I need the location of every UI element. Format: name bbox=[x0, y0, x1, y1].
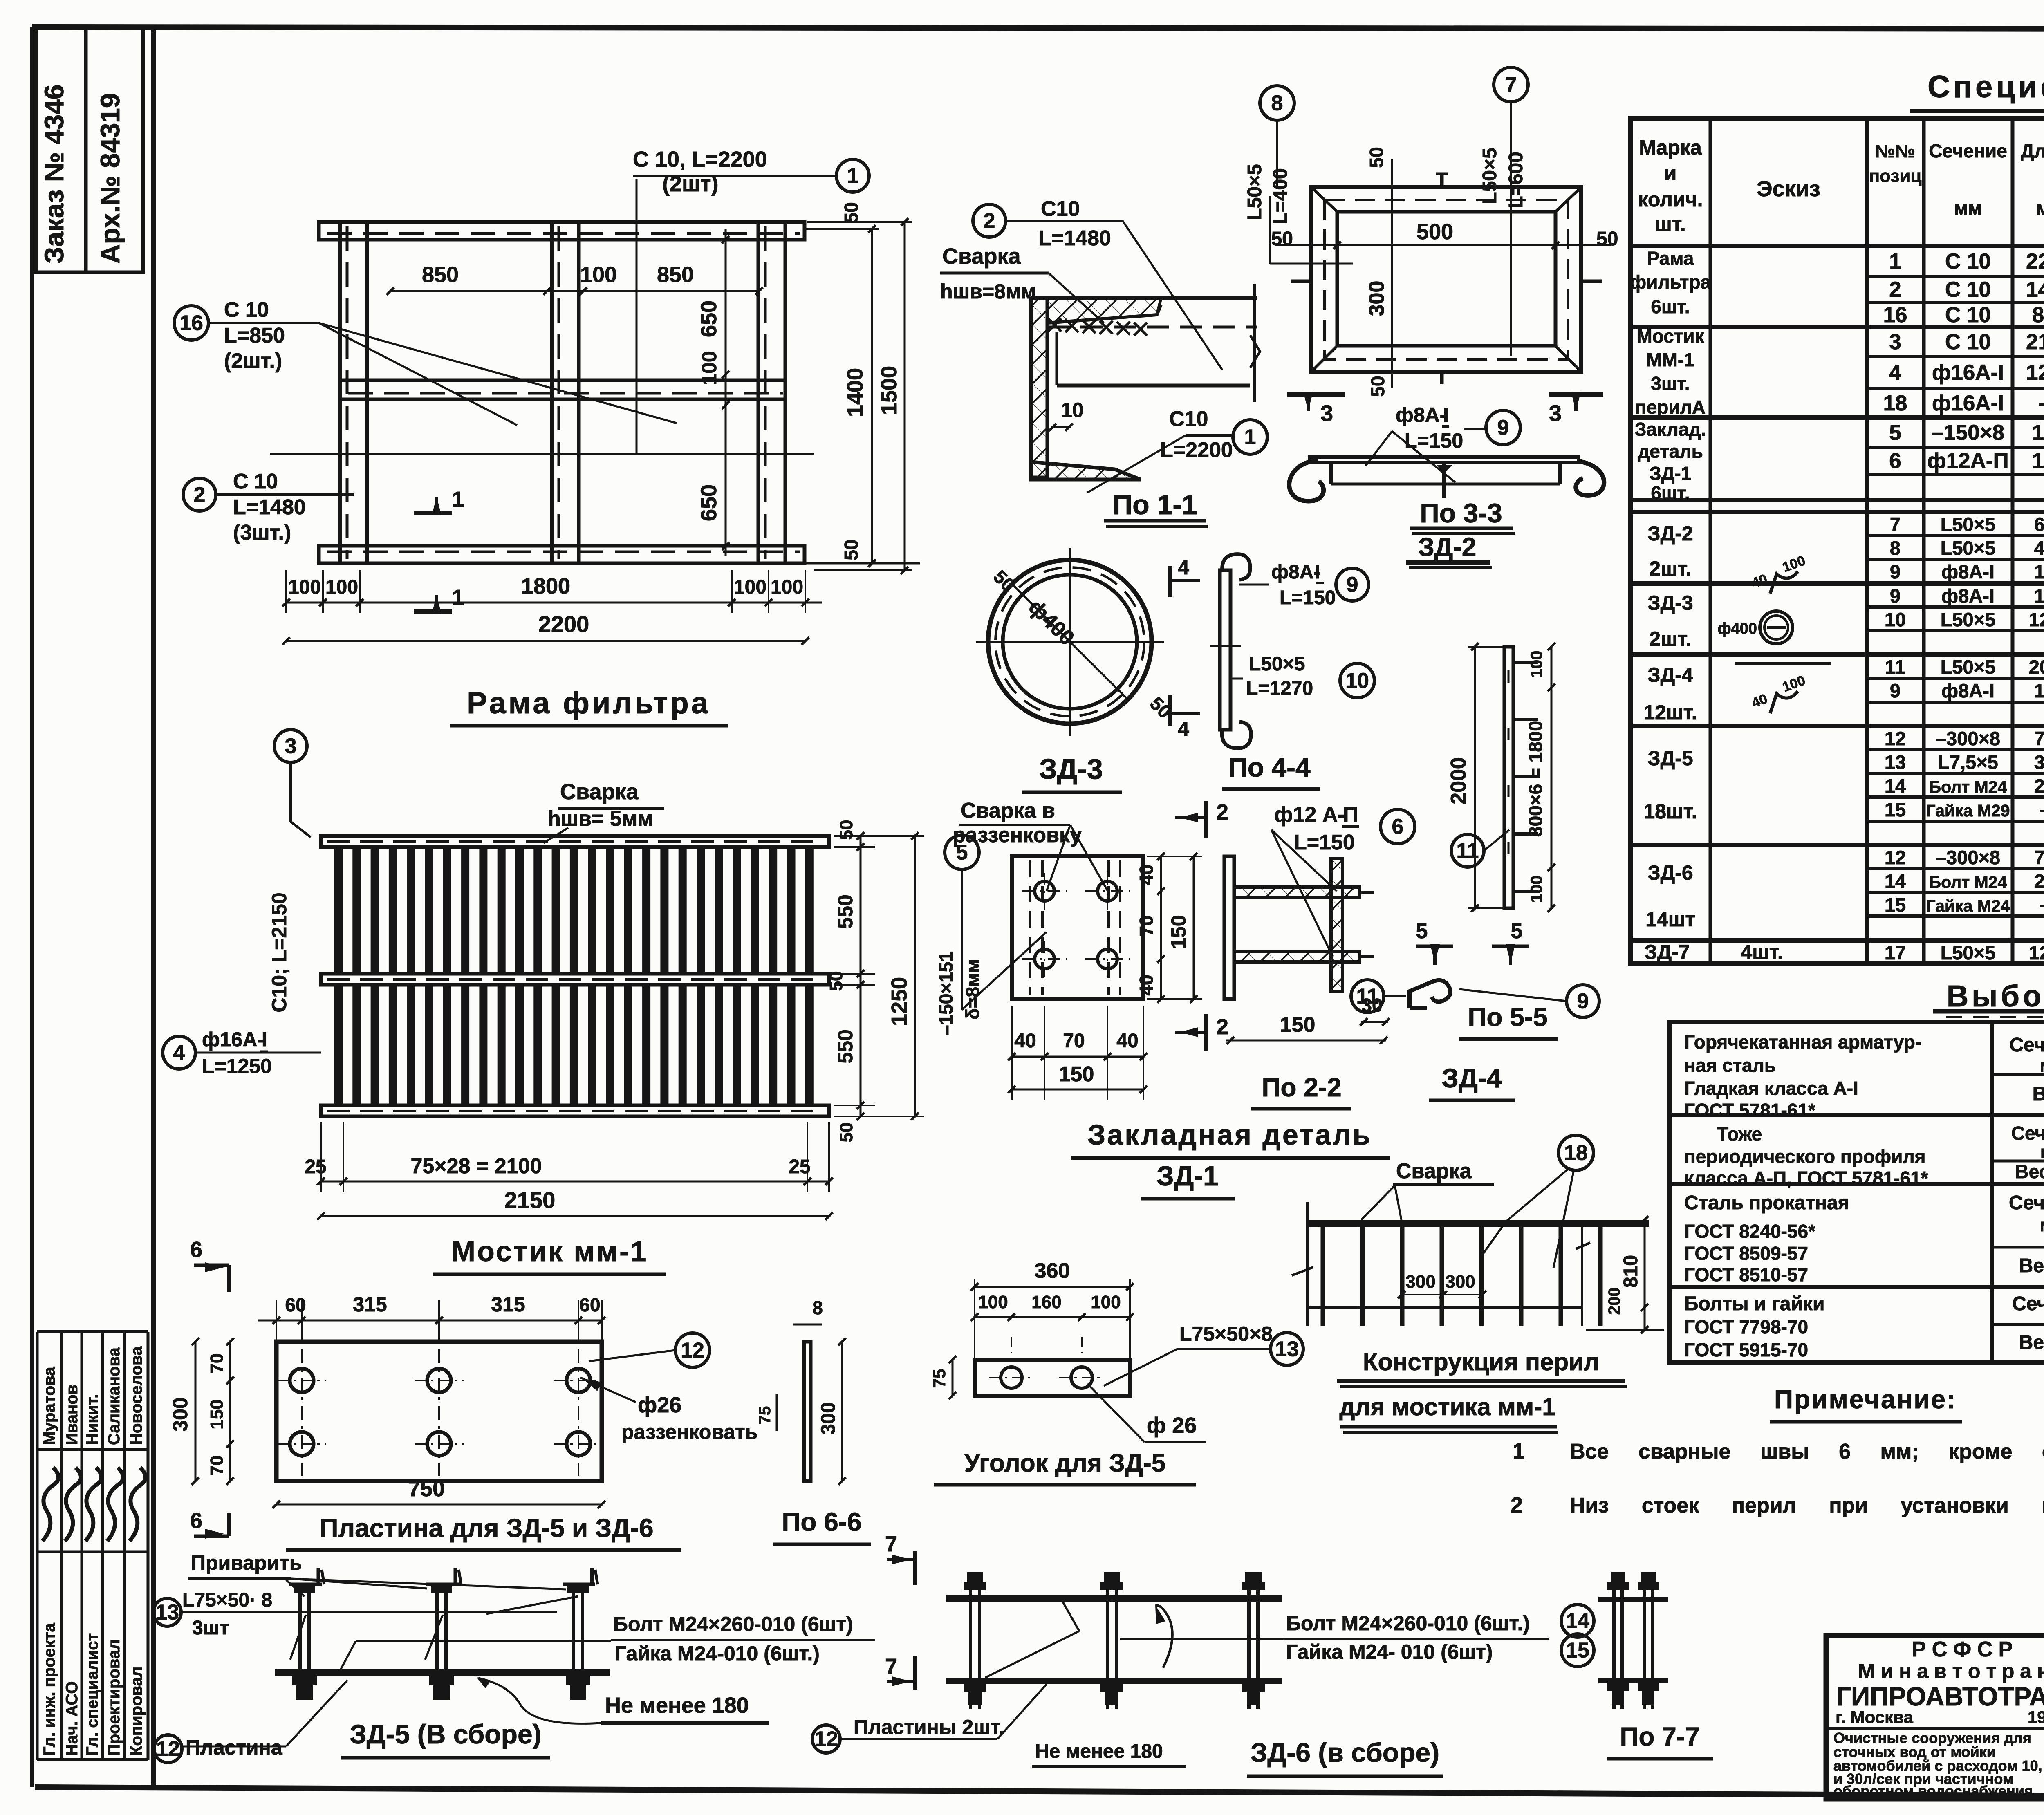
svg-text:100: 100 bbox=[734, 576, 766, 598]
svg-text:Сечение;: Сечение; bbox=[2009, 1192, 2044, 1214]
Vyborka table: horizontals bbox=[1992, 1073, 2044, 1076]
Po 4-4: section marks 4 bbox=[1168, 566, 1172, 597]
Po 2-2: flange plate bbox=[1224, 856, 1234, 999]
svg-text:С10: С10 bbox=[1041, 197, 1080, 221]
svg-text:150: 150 bbox=[2032, 421, 2044, 445]
svg-text:для мостика мм-1: для мостика мм-1 bbox=[1339, 1393, 1555, 1421]
svg-text:ГОСТ 7798-70: ГОСТ 7798-70 bbox=[1684, 1316, 1808, 1338]
svg-text:10: 10 bbox=[1345, 669, 1369, 693]
svg-text:7: 7 bbox=[1890, 513, 1901, 535]
archive stamp strip: Арх. № 84319 bbox=[86, 27, 143, 272]
Rama filtra: leader line from pos1 down bbox=[636, 179, 638, 454]
ZD-2: right pin bbox=[1580, 280, 1602, 283]
svg-text:оборотном водоснабжения: оборотном водоснабжения bbox=[1833, 1783, 2033, 1799]
svg-text:L50×5: L50×5 bbox=[1941, 513, 1996, 535]
svg-text:Вес, кг.: Вес, кг. bbox=[2019, 1255, 2044, 1277]
svg-text:4: 4 bbox=[1178, 556, 1189, 579]
svg-text:δ=8мм: δ=8мм bbox=[962, 959, 983, 1020]
svg-text:16: 16 bbox=[179, 311, 203, 335]
svg-text:Горячекатанная арматур-: Горячекатанная арматур- bbox=[1684, 1031, 1921, 1053]
svg-text:12: 12 bbox=[1885, 728, 1906, 749]
svg-text:6шт.: 6шт. bbox=[1651, 482, 1690, 504]
Po 2-2: top anchor hatched bbox=[1234, 887, 1359, 898]
ZD-1: callout 5 -150x151 bbox=[945, 835, 979, 869]
svg-text:Сварка: Сварка bbox=[942, 244, 1021, 269]
svg-text:Вес,: Вес, bbox=[2033, 1083, 2044, 1105]
Mostik MM-1: middle band bbox=[321, 974, 829, 985]
svg-text:750: 750 bbox=[2034, 728, 2044, 749]
svg-text:Примечание:: Примечание: bbox=[1774, 1385, 1957, 1414]
svg-text:1250: 1250 bbox=[2026, 361, 2044, 385]
svg-text:Рама: Рама bbox=[1647, 248, 1694, 269]
svg-text:14: 14 bbox=[1885, 775, 1906, 797]
svg-text:300: 300 bbox=[818, 1402, 839, 1435]
Title block: outer box bbox=[1826, 1636, 2044, 1799]
svg-text:40: 40 bbox=[1116, 1030, 1138, 1052]
svg-text:6шт.: 6шт. bbox=[1651, 296, 1690, 317]
ZD-2: left pin bbox=[1291, 280, 1313, 283]
svg-text:—: — bbox=[2041, 799, 2044, 820]
svg-text:класса А-П, ГОСТ 5781-61*: класса А-П, ГОСТ 5781-61* bbox=[1684, 1167, 1928, 1189]
ZD-2: section marks 3-3 bbox=[1287, 392, 1345, 397]
Spec table: eskiz sketch ring for ZD-3 bbox=[1760, 611, 1793, 644]
Po 1-1: right break line bbox=[1253, 284, 1256, 402]
svg-text:hшв= 5мм: hшв= 5мм bbox=[548, 807, 653, 831]
svg-text:25: 25 bbox=[789, 1156, 810, 1178]
svg-text:С 10: С 10 bbox=[233, 470, 278, 493]
svg-text:1250: 1250 bbox=[887, 977, 912, 1026]
svg-text:L=850: L=850 bbox=[224, 324, 285, 347]
svg-text:650: 650 bbox=[697, 300, 721, 337]
Po 6-6: thin plate bbox=[804, 1342, 811, 1481]
svg-text:100: 100 bbox=[325, 576, 358, 598]
svg-text:11: 11 bbox=[1885, 656, 1905, 678]
ZD-2 side view middle pin bbox=[1442, 463, 1446, 498]
svg-text:70: 70 bbox=[207, 1456, 227, 1476]
svg-text:ГОСТ 8510-57: ГОСТ 8510-57 bbox=[1684, 1264, 1808, 1285]
ZD-5 asm: callout 13 L75x50.8 3sht bbox=[153, 1598, 181, 1626]
svg-text:9: 9 bbox=[1497, 416, 1509, 440]
Po 5-5: callout 9 bbox=[1567, 985, 1599, 1017]
section marks 5-5 above bbox=[1416, 945, 1453, 948]
svg-text:По 5-5: По 5-5 bbox=[1468, 1002, 1547, 1032]
svg-text:2: 2 bbox=[984, 209, 995, 233]
svg-text:(3шт.): (3шт.) bbox=[233, 521, 291, 544]
ZD-1: bottom dim chain 40 70 40 / 150 bbox=[1012, 1056, 1143, 1058]
svg-text:–300×8: –300×8 bbox=[1936, 728, 2000, 749]
svg-text:По 4-4: По 4-4 bbox=[1228, 752, 1311, 782]
svg-text:5: 5 bbox=[1889, 421, 1901, 445]
svg-text:150: 150 bbox=[2034, 561, 2044, 583]
svg-text:850: 850 bbox=[2032, 303, 2044, 327]
ZD-6 asm: top bar bbox=[946, 1595, 1282, 1602]
svg-text:Болт М24×260-010 (6шт.): Болт М24×260-010 (6шт.) bbox=[1286, 1612, 1530, 1635]
svg-text:9: 9 bbox=[1347, 573, 1358, 597]
svg-text:hшв=8мм: hшв=8мм bbox=[940, 280, 1036, 303]
svg-text:Закладная деталь: Закладная деталь bbox=[1087, 1119, 1372, 1151]
svg-text:6: 6 bbox=[1889, 449, 1901, 473]
ZD-6 asm: callout 12 plastiny 2sht bbox=[812, 1725, 840, 1753]
Rama filtra: middle column C10 bbox=[552, 222, 579, 563]
svg-text:L50×5: L50×5 bbox=[1941, 942, 1996, 964]
svg-text:70: 70 bbox=[207, 1353, 227, 1374]
Rama filtra: mid horizontal axis line bbox=[270, 453, 814, 455]
svg-text:Не менее 180: Не менее 180 bbox=[1035, 1741, 1163, 1762]
Plastina: bottom dim 750 bbox=[276, 1504, 602, 1506]
ZD-5 asm: angles and bolts bbox=[289, 1583, 322, 1586]
svg-text:ГОСТ 5915-70: ГОСТ 5915-70 bbox=[1684, 1339, 1808, 1360]
svg-text:№№: №№ bbox=[1875, 141, 1915, 161]
svg-text:1800: 1800 bbox=[521, 574, 570, 598]
svg-text:100: 100 bbox=[698, 351, 721, 385]
svg-text:3шт: 3шт bbox=[192, 1617, 229, 1639]
svg-text:ЗД-4: ЗД-4 bbox=[1441, 1063, 1502, 1093]
svg-text:Сечение,: Сечение, bbox=[2011, 1123, 2044, 1144]
svg-text:2: 2 bbox=[1889, 278, 1901, 302]
svg-text:4: 4 bbox=[1178, 717, 1189, 740]
svg-text:ЗД-2: ЗД-2 bbox=[1647, 522, 1693, 545]
ZD-3: outer circle bbox=[988, 560, 1152, 724]
svg-text:100: 100 bbox=[1091, 1292, 1121, 1312]
svg-text:60: 60 bbox=[285, 1294, 306, 1315]
svg-text:1: 1 bbox=[1513, 1439, 1525, 1463]
svg-text:40: 40 bbox=[1136, 864, 1157, 885]
svg-text:360: 360 bbox=[1035, 1259, 1070, 1283]
svg-text:Рама фильтра: Рама фильтра bbox=[467, 686, 710, 720]
svg-text:По 2-2: По 2-2 bbox=[1262, 1073, 1341, 1102]
svg-text:100: 100 bbox=[771, 576, 803, 598]
svg-text:10: 10 bbox=[1885, 609, 1906, 630]
Perila: posts bbox=[1321, 1227, 1325, 1326]
Rama filtra: callout 2 C10 L=1480 bbox=[183, 478, 216, 511]
svg-text:ММ-1: ММ-1 bbox=[1646, 349, 1694, 370]
svg-text:I: I bbox=[262, 1028, 267, 1051]
svg-text:С10; L=2150: С10; L=2150 bbox=[268, 892, 291, 1012]
svg-text:600: 600 bbox=[2034, 513, 2044, 535]
Mostik MM-1: callout 4 f16A-I L=1250 bbox=[163, 1036, 195, 1069]
svg-text:2: 2 bbox=[194, 483, 206, 507]
Plastina: section mark 6 lower bbox=[194, 1535, 229, 1538]
svg-text:ф12 А-: ф12 А- bbox=[1274, 803, 1345, 827]
svg-text:18: 18 bbox=[1564, 1141, 1588, 1165]
Rama filtra: section mark 1 upper bbox=[414, 511, 452, 515]
svg-text:Приварить: Приварить bbox=[191, 1551, 302, 1574]
svg-text:18: 18 bbox=[1883, 391, 1907, 415]
svg-text:150: 150 bbox=[2032, 449, 2044, 473]
svg-text:перилА: перилА bbox=[1635, 397, 1706, 418]
svg-text:300: 300 bbox=[1405, 1272, 1435, 1292]
svg-text:12: 12 bbox=[1885, 847, 1906, 868]
Po 4-4: bottom hook bbox=[1222, 722, 1251, 748]
Po 6-6: left dim 75 bbox=[776, 1394, 778, 1431]
svg-text:Вес, кг.: Вес, кг. bbox=[2019, 1332, 2044, 1353]
svg-text:12: 12 bbox=[156, 1737, 180, 1761]
Po 1-1: bottom flange hatched bbox=[1031, 462, 1141, 480]
ZD-1: plate bbox=[1012, 856, 1143, 999]
svg-text:2шт.: 2шт. bbox=[1649, 557, 1691, 580]
Po 6-6: dim 300 right bbox=[841, 1342, 843, 1481]
svg-text:По 6-6: По 6-6 bbox=[782, 1507, 861, 1537]
svg-text:2150: 2150 bbox=[2026, 330, 2044, 354]
svg-text:6: 6 bbox=[1392, 815, 1404, 839]
svg-text:7: 7 bbox=[885, 1654, 897, 1679]
sheet border frame bbox=[30, 27, 34, 1787]
Po 7-7: bolts bbox=[1612, 1572, 1616, 1709]
svg-text:Болт М24: Болт М24 bbox=[1929, 873, 2007, 892]
svg-text:ф16А-I: ф16А-I bbox=[1932, 361, 2004, 385]
Rama filtra: bottom chord C10 bbox=[319, 546, 805, 563]
svg-text:1: 1 bbox=[452, 585, 464, 610]
Spec table: eskiz sketch hook2 for ZD-4 bbox=[1770, 691, 1798, 713]
Plastina: left dims 70/150/70 and 300 bbox=[229, 1342, 231, 1481]
svg-text:260: 260 bbox=[2034, 870, 2044, 892]
Ugolok: plate bbox=[975, 1360, 1130, 1396]
svg-text:Сварка в: Сварка в bbox=[961, 799, 1055, 822]
Spec table: row lines bbox=[1631, 498, 2044, 502]
Spec table: header bottom line bbox=[1631, 244, 2044, 248]
ZD-2 side view trough bbox=[1329, 463, 1333, 484]
svg-text:ф16А-: ф16А- bbox=[202, 1028, 264, 1051]
svg-text:—: — bbox=[2041, 894, 2044, 916]
ZD-3: dashed mid circle bbox=[995, 567, 1144, 716]
svg-text:15: 15 bbox=[1566, 1639, 1589, 1663]
Plastina: plate outline bbox=[276, 1342, 602, 1481]
Plastina: holes 6x f26 bbox=[290, 1369, 314, 1392]
svg-text:50: 50 bbox=[1367, 376, 1388, 397]
svg-text:L50×5: L50×5 bbox=[1941, 656, 1996, 678]
svg-text:По 3-3: По 3-3 bbox=[1420, 498, 1502, 528]
svg-text:шт.: шт. bbox=[1655, 213, 1686, 235]
Mostik MM-1: right dim chain 50/550/50/550/50 bbox=[860, 836, 862, 1116]
svg-text:Муратова: Муратова bbox=[40, 1367, 58, 1445]
svg-text:С10: С10 bbox=[1169, 407, 1208, 431]
svg-text:13: 13 bbox=[155, 1601, 179, 1625]
svg-text:ЗД-6 (в сборе): ЗД-6 (в сборе) bbox=[1251, 1737, 1439, 1768]
Ugolok: left dim 75 bbox=[952, 1360, 954, 1396]
svg-text:50: 50 bbox=[840, 202, 862, 223]
svg-text:2шт.: 2шт. bbox=[1649, 627, 1691, 650]
svg-text:L=1480: L=1480 bbox=[1038, 226, 1111, 250]
svg-text:12: 12 bbox=[814, 1728, 838, 1751]
ZD-6 asm: bottom bar bbox=[946, 1678, 1282, 1684]
Vyborka table: outer frame bbox=[1670, 1022, 2044, 1363]
svg-text:850: 850 bbox=[657, 262, 694, 287]
Rama filtra: right dim 1500 and 50s bbox=[904, 222, 906, 570]
svg-text:ф16А-I: ф16А-I bbox=[1932, 391, 2004, 415]
Plastina: top dim 60/315/315/60 bbox=[258, 1320, 602, 1322]
svg-text:–150×151: –150×151 bbox=[935, 951, 957, 1035]
svg-text:150: 150 bbox=[1280, 1013, 1316, 1037]
Rama filtra: top chord C10 bbox=[319, 222, 805, 240]
svg-text:13: 13 bbox=[1275, 1338, 1299, 1361]
svg-text:13: 13 bbox=[1885, 751, 1906, 773]
ZD-2: centerlines bbox=[1391, 159, 1393, 388]
Mostik MM-1: bottom dim 25 / 75x28=2100 / 25 bbox=[321, 1181, 829, 1183]
svg-text:8: 8 bbox=[812, 1297, 823, 1318]
svg-text:70: 70 bbox=[1063, 1030, 1085, 1052]
Po 2-2: vertical anchor bar hatched bbox=[1331, 859, 1342, 991]
svg-text:7: 7 bbox=[885, 1532, 897, 1556]
svg-text:ГИПРОАВТОТРАНС: ГИПРОАВТОТРАНС bbox=[1836, 1682, 2044, 1711]
svg-text:150: 150 bbox=[1167, 915, 1190, 949]
svg-text:г. Москва: г. Москва bbox=[1836, 1707, 1913, 1727]
svg-text:1480: 1480 bbox=[2026, 278, 2044, 302]
svg-text:раззенковать: раззенковать bbox=[621, 1421, 758, 1443]
Rama filtra: right column C10 bbox=[758, 222, 785, 563]
svg-text:Заклад.: Заклад. bbox=[1635, 419, 1706, 440]
svg-text:Тоже: Тоже bbox=[1717, 1123, 1762, 1145]
svg-text:3: 3 bbox=[285, 735, 297, 758]
svg-text:ф12А-П: ф12А-П bbox=[1927, 449, 2008, 473]
Po 2-2: bottom anchor hatched bbox=[1234, 951, 1359, 962]
svg-text:Болт М24: Болт М24 bbox=[1929, 778, 2007, 796]
svg-text:75: 75 bbox=[930, 1369, 949, 1388]
Mostik MM-1: bottom dim 2150 bbox=[321, 1215, 829, 1217]
svg-text:2000: 2000 bbox=[2029, 656, 2044, 678]
svg-text:9: 9 bbox=[1890, 680, 1901, 701]
Perila: right dim extension bbox=[1581, 1220, 1583, 1326]
Po 4-4: top hook bbox=[1222, 554, 1251, 580]
Perila: callout 18 with leaders bbox=[1558, 1135, 1594, 1170]
svg-text:П: П bbox=[1343, 803, 1358, 827]
svg-text:300: 300 bbox=[1365, 281, 1389, 316]
Rama filtra: dim 650/100/650 vertical bbox=[722, 236, 729, 243]
svg-text:ф 26: ф 26 bbox=[1147, 1413, 1197, 1438]
svg-text:мм: мм bbox=[2040, 1056, 2044, 1076]
svg-text:С 10: С 10 bbox=[1945, 278, 1991, 302]
svg-text:L=1270: L=1270 bbox=[1246, 678, 1313, 699]
svg-text:400: 400 bbox=[2034, 537, 2044, 559]
svg-text:Никит.: Никит. bbox=[83, 1394, 101, 1445]
svg-text:200: 200 bbox=[1605, 1288, 1623, 1315]
svg-text:деталь: деталь bbox=[1638, 441, 1703, 462]
svg-text:ЗД-4: ЗД-4 bbox=[1647, 663, 1693, 686]
svg-text:100: 100 bbox=[1528, 651, 1546, 678]
svg-text:Копировал: Копировал bbox=[128, 1667, 146, 1756]
svg-text:260: 260 bbox=[2034, 775, 2044, 797]
Po 1-1: channel web hatched bbox=[1031, 298, 1047, 477]
Perila: right dim 810 and 200 bbox=[1644, 1220, 1646, 1330]
svg-text:I: I bbox=[1443, 403, 1449, 426]
svg-text:Гайка М24- 010 (6шт): Гайка М24- 010 (6шт) bbox=[1286, 1640, 1493, 1663]
ZD-2: bottom pin bbox=[1440, 370, 1444, 384]
svg-text:7: 7 bbox=[1505, 73, 1517, 97]
ZD-4: callout 11 bbox=[1451, 834, 1484, 867]
Rama filtra: middle cross rail C10 bbox=[340, 380, 785, 399]
ZD-4: right dim 300x6=1800 and 100s bbox=[1551, 647, 1553, 908]
ZD-2 side view left hook bbox=[1289, 460, 1324, 501]
svg-text:L50×5: L50×5 bbox=[1941, 537, 1996, 559]
svg-text:Новоселова: Новоселова bbox=[128, 1346, 146, 1445]
ZD-4: pins bbox=[1513, 661, 1538, 664]
svg-text:ЗД-3: ЗД-3 bbox=[1039, 753, 1103, 785]
svg-text:15: 15 bbox=[1885, 894, 1906, 916]
svg-text:L=600: L=600 bbox=[1505, 152, 1527, 208]
Po 7-7: top bar bbox=[1598, 1597, 1668, 1602]
svg-text:2: 2 bbox=[1216, 800, 1228, 825]
Spec table: eskiz sketch hook for ZD-2/ZD-3 bbox=[1770, 571, 1798, 594]
Rama filtra: callout 16 C10 L=850 bbox=[174, 306, 208, 340]
ZD-1: dashed edge lines bbox=[1029, 860, 1031, 995]
Mostik MM-1: vertical bars field bbox=[334, 841, 343, 1111]
svg-text:L=1480: L=1480 bbox=[233, 495, 306, 519]
Rama filtra: dim 850/100/850 line bbox=[390, 290, 759, 292]
svg-text:4: 4 bbox=[173, 1041, 185, 1065]
svg-text:3: 3 bbox=[1549, 400, 1562, 426]
ZD-3: centerlines bbox=[1069, 548, 1071, 736]
svg-text:14: 14 bbox=[1885, 870, 1906, 892]
svg-text:40: 40 bbox=[1136, 975, 1157, 995]
Po 1-1: top flange bbox=[1031, 296, 1257, 300]
svg-text:750: 750 bbox=[408, 1477, 445, 1501]
svg-text:—: — bbox=[2040, 391, 2044, 415]
svg-text:Гайка М29: Гайка М29 bbox=[1926, 801, 2010, 820]
svg-text:колич.: колич. bbox=[1638, 188, 1703, 211]
svg-text:300: 300 bbox=[169, 1397, 192, 1431]
svg-text:3: 3 bbox=[1889, 330, 1901, 354]
svg-text:1400: 1400 bbox=[843, 368, 867, 417]
svg-text:9: 9 bbox=[1890, 585, 1901, 607]
svg-text:150: 150 bbox=[207, 1399, 227, 1429]
svg-text:5: 5 bbox=[1511, 919, 1523, 943]
svg-text:Гл. инж. проекта: Гл. инж. проекта bbox=[40, 1622, 58, 1756]
svg-text:315: 315 bbox=[491, 1293, 525, 1316]
svg-text:14шт: 14шт bbox=[1645, 908, 1695, 931]
svg-text:Выборка стали: Выборка стали bbox=[1947, 979, 2044, 1013]
svg-text:Не менее 180: Не менее 180 bbox=[605, 1693, 749, 1718]
Mostik MM-1: right dim 1250 bbox=[914, 836, 916, 1116]
svg-text:Сталь прокатная: Сталь прокатная bbox=[1684, 1192, 1849, 1214]
Mostik MM-1: callout 3 and left label C10 L=2150 bbox=[274, 730, 307, 762]
svg-text:Сварка: Сварка bbox=[1396, 1159, 1472, 1183]
svg-text:Иванов: Иванов bbox=[63, 1385, 81, 1445]
svg-text:Пластина: Пластина bbox=[186, 1736, 283, 1759]
svg-text:ф400: ф400 bbox=[1717, 620, 1757, 637]
ZD-6 asm: leader lines inside bbox=[1063, 1602, 1079, 1631]
svg-text:Сечение,: Сечение, bbox=[2009, 1034, 2044, 1056]
svg-text:1200: 1200 bbox=[2029, 942, 2044, 964]
svg-text:50: 50 bbox=[836, 1123, 856, 1143]
ZD-5 asm: callout 12 plastina bbox=[154, 1735, 182, 1763]
Perila: left edge line bbox=[1306, 1202, 1309, 1326]
svg-text:1: 1 bbox=[1889, 249, 1901, 273]
svg-text:периодического профиля: периодического профиля bbox=[1684, 1146, 1926, 1167]
svg-text:Мостик: Мостик bbox=[1636, 325, 1704, 347]
svg-text:раззенковку: раззенковку bbox=[953, 823, 1082, 847]
Po 2-2: bottom dim 150 bbox=[1226, 1040, 1386, 1042]
svg-text:50: 50 bbox=[840, 539, 862, 560]
svg-text:Сечение: Сечение bbox=[2012, 1293, 2044, 1315]
svg-text:Пластина для ЗД-5 и ЗД-6: Пластина для ЗД-5 и ЗД-6 bbox=[319, 1513, 653, 1543]
svg-text:75: 75 bbox=[756, 1406, 774, 1425]
svg-text:Болт М24×260-010 (6шт): Болт М24×260-010 (6шт) bbox=[613, 1613, 853, 1636]
svg-text:50: 50 bbox=[836, 820, 856, 840]
ZD-1: right dim chain 40 70 40 / 150 bbox=[1160, 856, 1162, 999]
ZD-2: top pin bbox=[1440, 174, 1444, 189]
Rama filtra: right dim 1400 bbox=[871, 229, 873, 563]
svg-text:9: 9 bbox=[1890, 561, 1901, 583]
ZD-1: section mark 2 bottom bbox=[1204, 1014, 1208, 1051]
svg-text:Р С Ф С Р: Р С Ф С Р bbox=[1912, 1638, 2013, 1661]
ZD-6 asm: section marks 7 bbox=[913, 1551, 917, 1585]
Rama filtra: left column C10 bbox=[340, 222, 367, 563]
ZD-1: section mark 2 top bbox=[1204, 801, 1208, 838]
svg-text:L50×5: L50×5 bbox=[1244, 164, 1266, 220]
svg-text:11: 11 bbox=[1457, 839, 1479, 863]
svg-text:9: 9 bbox=[1577, 990, 1589, 1013]
svg-text:150: 150 bbox=[2034, 680, 2044, 701]
ZD-4: vertical bar bbox=[1504, 647, 1513, 908]
